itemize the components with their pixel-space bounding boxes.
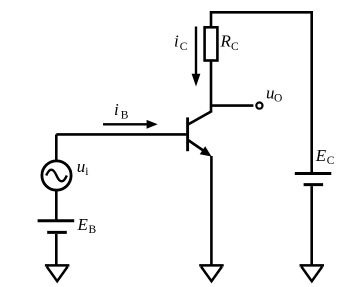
svg-text:O: O — [274, 93, 282, 105]
svg-text:B: B — [121, 110, 129, 122]
svg-text:C: C — [327, 155, 335, 167]
svg-text:E: E — [77, 215, 89, 234]
svg-text:u: u — [77, 157, 86, 176]
svg-text:B: B — [89, 224, 97, 236]
svg-text:E: E — [315, 146, 327, 165]
svg-text:C: C — [180, 41, 188, 53]
svg-text:i: i — [114, 100, 119, 119]
svg-text:C: C — [231, 41, 239, 53]
svg-text:i: i — [85, 166, 88, 178]
svg-text:i: i — [174, 32, 179, 51]
svg-text:R: R — [220, 32, 232, 51]
